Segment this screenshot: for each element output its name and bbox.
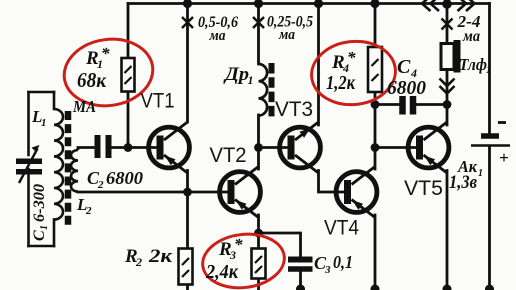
svg-text:1: 1 — [486, 65, 491, 76]
capacitor C2 — [98, 135, 109, 158]
connector chevrons on rail left — [422, 0, 439, 11]
wire tank left below C1 — [27, 169, 30, 246]
wire top rail — [128, 2, 490, 5]
wire right edge to battery — [488, 4, 491, 134]
wire Dr1 to VT3 base node — [257, 115, 260, 148]
wire tank bottom — [29, 245, 55, 248]
wire VT2 emitter — [257, 215, 260, 233]
wire Dr1 branch top — [257, 4, 260, 65]
wire battery to bottom — [488, 147, 491, 288]
transistor VT1 — [149, 122, 190, 173]
node VT1 base — [124, 143, 133, 152]
wire R3 bottom — [257, 279, 260, 290]
node rail VT3 — [314, 0, 323, 8]
transistor VT5 — [408, 122, 449, 173]
svg-text:*: * — [347, 48, 356, 67]
wire C2 left lead — [78, 146, 95, 149]
svg-text:2: 2 — [85, 205, 92, 217]
wire C3 bottom — [299, 272, 302, 290]
battery Ak1 — [471, 136, 510, 146]
svg-text:Тлф: Тлф — [459, 55, 487, 74]
wire VT5 base lead — [375, 146, 416, 149]
node bottom battery — [485, 285, 494, 290]
svg-text:1: 1 — [478, 168, 483, 179]
svg-text:6-300: 6-300 — [31, 184, 48, 222]
node bottom VT4 emitter — [371, 285, 380, 290]
svg-text:1: 1 — [39, 225, 50, 230]
node VT2 emitter — [254, 229, 263, 238]
transistor VT2 — [220, 167, 261, 218]
svg-text:6800: 6800 — [387, 77, 426, 99]
svg-text:*: * — [234, 235, 243, 254]
wire phone to C4 node — [446, 70, 449, 105]
wire VT1 collector — [186, 4, 189, 123]
label C1 rotated — [31, 184, 50, 241]
node rail phone — [442, 0, 452, 9]
wire tank left above C1 — [27, 92, 30, 155]
svg-text:68к: 68к — [77, 68, 107, 92]
svg-text:1: 1 — [248, 73, 254, 87]
svg-text:1: 1 — [41, 117, 47, 129]
svg-text:МА: МА — [72, 97, 96, 116]
resistor R1 — [122, 58, 135, 92]
capacitor C3 — [288, 260, 313, 270]
node C4 left — [371, 100, 380, 109]
inductor Dr1 choke — [259, 64, 268, 116]
resistor R4 — [368, 47, 382, 92]
wire VT4 emitter — [374, 215, 377, 290]
node rail R4 — [370, 0, 379, 8]
svg-text:Др: Др — [223, 64, 249, 85]
node bottom VT5 emitter — [443, 285, 452, 290]
svg-text:ма: ма — [209, 28, 226, 44]
wire VT3 collector to VT4 base — [319, 171, 345, 193]
capacitor C4 — [403, 96, 414, 115]
X measuring mark 2 — [253, 17, 264, 28]
svg-text:2: 2 — [97, 179, 104, 191]
wire VT4 collector node to C4 node — [374, 105, 377, 148]
red circle around R3 — [200, 230, 288, 290]
svg-text:С: С — [397, 56, 411, 78]
wire tank top — [29, 91, 55, 94]
wire tank right top stub — [53, 92, 56, 109]
wire VT3 base lead — [259, 146, 288, 149]
resistor R3 — [252, 249, 266, 279]
svg-text:ма: ма — [278, 27, 295, 43]
wire VT2 collector — [257, 148, 260, 170]
node bottom C3 — [296, 285, 305, 290]
svg-text:VT5: VT5 — [404, 177, 443, 200]
wire VT5 collector — [446, 105, 449, 126]
wire C4 left lead — [375, 103, 399, 106]
wire R1 to base node — [127, 92, 130, 148]
headphone jack Tlf1 — [441, 40, 461, 73]
svg-text:0,1: 0,1 — [333, 252, 353, 272]
wire C4 right lead — [417, 103, 448, 106]
wire R3 top — [257, 233, 260, 249]
svg-text:2: 2 — [135, 255, 142, 269]
node VT5 base — [371, 143, 380, 152]
inductor L1 — [54, 109, 63, 220]
wire R2 bottom — [186, 285, 189, 290]
svg-text:1,3в: 1,3в — [449, 172, 477, 193]
node rail VT1 — [183, 0, 192, 8]
wire VT1 base lead — [128, 146, 157, 149]
svg-text:VT3: VT3 — [275, 98, 313, 121]
svg-text:VT2: VT2 — [210, 144, 247, 167]
connector chevrons below jack — [440, 79, 455, 94]
connector chevrons on rail right — [458, 0, 475, 11]
wire VT1 emitter down — [186, 171, 189, 193]
svg-text:6800: 6800 — [106, 168, 143, 188]
red circle around R1 — [60, 34, 157, 112]
wire C3 branch — [259, 233, 301, 257]
svg-text:2к: 2к — [148, 246, 174, 267]
svg-text:VT4: VT4 — [324, 217, 359, 240]
wire VT3 emitter up — [317, 4, 320, 126]
transistor VT3 — [280, 122, 321, 173]
wire phone branch top — [446, 4, 449, 44]
resistor R2 — [179, 249, 193, 285]
tank circuit loop L1 C1 — [29, 92, 55, 246]
node VT1 emitter — [183, 188, 192, 197]
svg-text:2,4к: 2,4к — [205, 261, 239, 283]
svg-text:+: + — [499, 148, 509, 167]
X measuring mark 1 — [182, 17, 193, 28]
transistor VT4 — [336, 167, 377, 218]
wire R2 top — [186, 192, 189, 249]
capacitor C1 arrow head — [32, 145, 40, 152]
inductor L2 — [71, 148, 78, 193]
Dr1 core — [269, 63, 275, 117]
node C4 right — [443, 100, 452, 109]
label battery minus — [498, 121, 506, 124]
wire VT5 emitter — [446, 171, 449, 289]
wire C2 right lead — [112, 146, 129, 149]
svg-text:1,2к: 1,2к — [326, 72, 356, 94]
wire VT4 collector — [374, 148, 377, 170]
wire C4 node to R4 — [374, 92, 377, 105]
wire R4 top — [374, 4, 377, 48]
node VT3 base — [254, 143, 263, 152]
X measuring mark 3 — [442, 19, 453, 30]
capacitor C1 variable — [16, 149, 42, 184]
ferrite rod core — [65, 111, 72, 225]
svg-text:*: * — [101, 44, 110, 63]
svg-text:ма: ма — [462, 28, 480, 45]
node rail Dr1 — [254, 0, 263, 8]
svg-text:VT1: VT1 — [141, 90, 175, 113]
wire tank right bottom stub — [53, 220, 56, 247]
wire R1 branch top — [127, 4, 130, 59]
svg-text:С: С — [31, 230, 48, 241]
red circle around R4 — [308, 37, 398, 108]
wire L2 bottom to VT2 base — [78, 191, 228, 194]
svg-text:3: 3 — [324, 264, 331, 276]
